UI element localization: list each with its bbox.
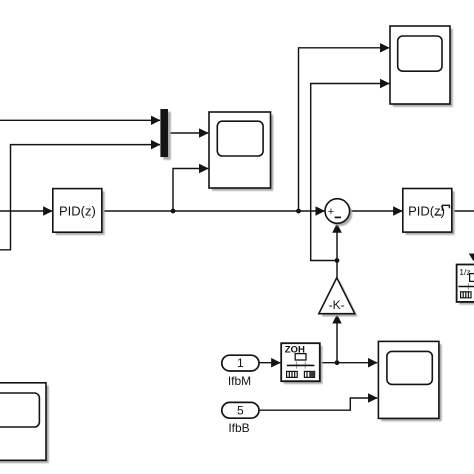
svg-text:1/z: 1/z: [459, 267, 470, 277]
wire: feedback up into gain input: [336, 315, 338, 364]
wire: PID2 output to right edge: [452, 210, 474, 212]
wire: ZOH output to scope3 input 1: [320, 362, 377, 364]
sum block Sum1: [325, 199, 352, 226]
node: junction on ZOH output feeding gain: [335, 360, 340, 365]
svg-text:+: +: [328, 206, 334, 218]
svg-text:IfbM: IfbM: [228, 374, 251, 388]
scope Scope2 (top right): [390, 26, 453, 107]
svg-text:PID(z): PID(z): [59, 204, 96, 219]
wire: inport 5 IfbB to scope3 input 2: [259, 398, 377, 410]
node: junction on PID1 output at riser to scope1: [171, 209, 176, 214]
wire: reference input into PID(z) left controller: [0, 210, 52, 212]
wire: mux output to scope1 input 1: [168, 132, 208, 134]
delay block 1/z (right edge, clipped): [457, 265, 474, 305]
mux Mux1: [160, 109, 170, 160]
wire: branch from PID1 output up to scope1 input 2: [173, 169, 208, 212]
svg-text:1: 1: [237, 356, 244, 370]
wire: gain output up into sum minus input: [336, 224, 338, 278]
wire: branch from PID1 output up to scope2 input 1: [299, 48, 390, 211]
wire: input 1 into mux: [0, 119, 160, 121]
wire: sum output to PID(z) right controller: [350, 210, 403, 212]
svg-text:5: 5: [237, 403, 244, 417]
wire: inport 1 IfbM to ZOH: [259, 362, 280, 364]
svg-text:IfbB: IfbB: [228, 421, 249, 435]
scope Scope3 (bottom right): [378, 341, 441, 421]
scope Scope4 (bottom left, clipped): [0, 383, 49, 463]
inport 1 IfbM: [222, 355, 259, 388]
wire: PID1 output to sum block: [102, 210, 325, 212]
subsystem ZOH: [281, 343, 322, 384]
gain -K-: [319, 278, 358, 317]
wire: input 2 into mux (L-shaped from lower left): [0, 145, 160, 250]
inport 5 IfbB: [222, 402, 259, 435]
node: junction on PID1 output at riser to scope2: [296, 209, 301, 214]
node: junction of gain output and scope2 branch: [335, 258, 340, 263]
svg-text:PID(z): PID(z): [408, 204, 445, 219]
scope Scope1 (upper middle): [209, 112, 273, 191]
PID controller PID2 (right, discrete icon): [403, 189, 455, 235]
PID controller PID1 (left): [53, 189, 105, 235]
svg-text:-K-: -K-: [329, 298, 345, 312]
wire: arrow down into 1/z delay block: [469, 254, 474, 262]
wire: branch from gain output left and up to scope2 input 2: [311, 84, 390, 261]
